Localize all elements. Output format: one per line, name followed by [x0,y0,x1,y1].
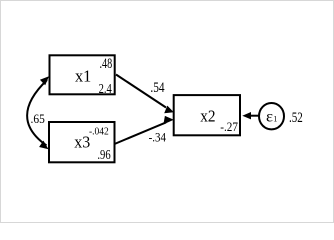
svg-text:-.042: -.042 [89,125,109,137]
svg-text:ε: ε [266,108,273,125]
svg-text:-.34: -.34 [149,131,166,145]
path arrow x3 to x2 [115,116,174,144]
error term circle e1 [259,103,284,129]
path arrow x1 to x2 [116,75,174,114]
svg-text:.48: .48 [100,56,113,72]
error arrow e1 to x2 [242,112,258,119]
svg-text:.96: .96 [97,147,111,162]
svg-text:.65: .65 [31,112,45,126]
covariance double-arrow arc x1 to x3 [27,76,49,149]
svg-text:x2: x2 [200,106,215,125]
svg-text:.54: .54 [150,80,164,96]
svg-text:1: 1 [273,114,277,123]
svg-text:2.4: 2.4 [99,82,112,97]
svg-text:x3: x3 [74,132,90,151]
svg-text:.52: .52 [289,110,303,126]
observed variable box x3 [49,122,115,162]
svg-text:x1: x1 [75,67,91,86]
svg-text:-.27: -.27 [220,120,238,134]
observed variable box x2 (dependent) [174,95,240,135]
observed variable box x1 [50,55,115,94]
